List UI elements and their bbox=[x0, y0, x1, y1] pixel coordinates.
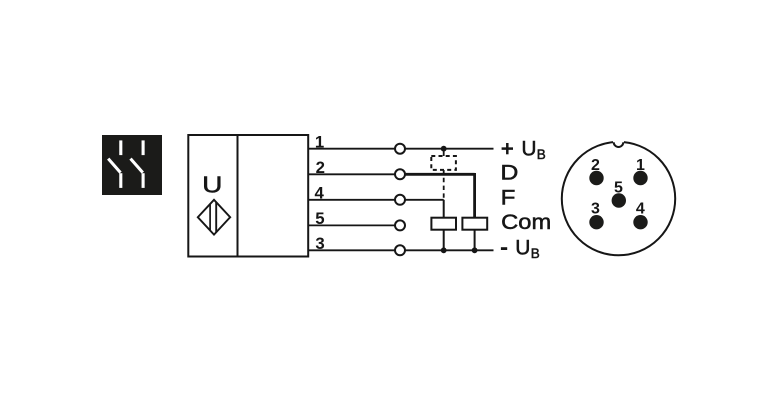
svg-text:F: F bbox=[501, 186, 516, 209]
svg-text:1: 1 bbox=[636, 157, 645, 174]
svg-text:Com: Com bbox=[501, 211, 551, 234]
svg-text:1: 1 bbox=[315, 133, 324, 152]
svg-text:U: U bbox=[515, 237, 530, 260]
svg-text:5: 5 bbox=[614, 179, 623, 196]
svg-text:B: B bbox=[531, 246, 540, 261]
svg-text:B: B bbox=[537, 147, 546, 162]
svg-text:3: 3 bbox=[315, 234, 324, 253]
svg-text:U: U bbox=[521, 138, 536, 161]
svg-text:D: D bbox=[500, 162, 518, 185]
svg-text:4: 4 bbox=[636, 201, 645, 218]
svg-text:4: 4 bbox=[315, 183, 325, 202]
svg-text:3: 3 bbox=[591, 201, 600, 218]
svg-text:5: 5 bbox=[315, 209, 324, 228]
svg-text:U: U bbox=[202, 172, 222, 198]
svg-text:2: 2 bbox=[591, 157, 600, 174]
svg-text:2: 2 bbox=[316, 158, 325, 177]
